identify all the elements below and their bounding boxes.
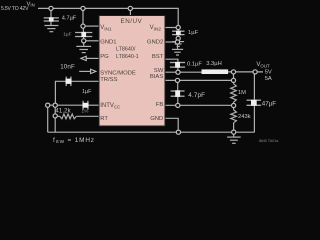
svg-text:PG: PG — [100, 54, 109, 60]
svg-text:1%: 1% — [82, 109, 90, 115]
svg-text:VOUT: VOUT — [256, 62, 270, 68]
svg-text:GND1: GND1 — [100, 39, 116, 45]
svg-text:41.2k: 41.2k — [55, 108, 71, 115]
svg-text:LT8640-1: LT8640-1 — [116, 54, 139, 60]
svg-text:5V: 5V — [265, 70, 272, 76]
svg-text:5.5V TO 42V: 5.5V TO 42V — [1, 6, 29, 12]
svg-text:5A: 5A — [265, 76, 272, 82]
svg-text:1µF: 1µF — [82, 89, 92, 95]
svg-text:1M: 1M — [238, 90, 246, 96]
svg-text:0.1µF: 0.1µF — [187, 61, 202, 67]
svg-text:BIAS: BIAS — [150, 74, 163, 80]
svg-text:GND: GND — [150, 116, 163, 122]
svg-text:BST: BST — [152, 54, 164, 60]
svg-text:1µF: 1µF — [188, 30, 199, 36]
svg-text:SYNC/MODE: SYNC/MODE — [100, 71, 136, 77]
svg-text:10nF: 10nF — [60, 63, 75, 70]
svg-text:3.3µH: 3.3µH — [206, 61, 222, 67]
svg-text:EN/UV: EN/UV — [121, 18, 143, 25]
svg-text:1µF: 1µF — [63, 31, 71, 37]
svg-text:8640 TA01a: 8640 TA01a — [259, 139, 278, 143]
svg-text:4.7µF: 4.7µF — [62, 16, 77, 22]
svg-text:47µF: 47µF — [262, 101, 276, 108]
svg-text:FB: FB — [156, 102, 164, 108]
svg-text:LT8640/: LT8640/ — [116, 46, 136, 52]
svg-text:TR/SS: TR/SS — [100, 77, 117, 83]
svg-text:4.7pF: 4.7pF — [188, 92, 205, 99]
svg-text:INTVCC: INTVCC — [100, 103, 120, 110]
svg-text:GND2: GND2 — [147, 39, 163, 45]
svg-text:243k: 243k — [238, 114, 251, 120]
svg-text:RT: RT — [100, 116, 108, 122]
